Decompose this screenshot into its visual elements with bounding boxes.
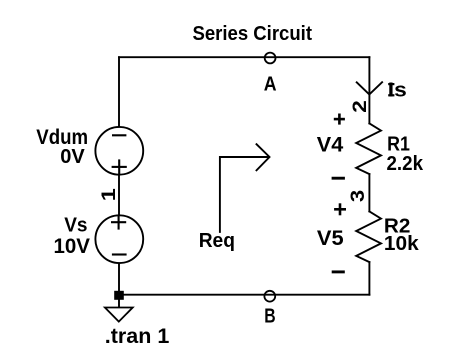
wire right lower bbox=[368, 262, 370, 295]
V5 polarity plus mark bbox=[334, 203, 346, 215]
svg-text:A: A bbox=[264, 72, 277, 95]
current arrow Is head bbox=[357, 82, 382, 94]
wire left lower bbox=[118, 263, 120, 295]
V4 polarity minus mark bbox=[332, 177, 345, 180]
wire right upper (node 2) bbox=[368, 57, 370, 123]
svg-text:1: 1 bbox=[98, 188, 120, 201]
svg-text:2: 2 bbox=[349, 100, 371, 113]
Vdum minus mark bbox=[112, 134, 126, 136]
voltage source Vdum circle bbox=[95, 127, 143, 175]
resistor R2 zigzag bbox=[356, 211, 381, 262]
Req arrow head bbox=[257, 144, 270, 170]
Vdum plus mark bbox=[112, 166, 127, 168]
Vs minus mark bbox=[112, 253, 127, 255]
wire top bbox=[119, 56, 369, 58]
svg-text:Series Circuit: Series Circuit bbox=[193, 23, 313, 45]
ground triangle bbox=[105, 308, 133, 322]
svg-text:B: B bbox=[264, 304, 275, 327]
Req arrow line bbox=[220, 157, 268, 232]
svg-text:.tran 1: .tran 1 bbox=[105, 324, 170, 348]
svg-text:Vs: Vs bbox=[64, 214, 87, 237]
wire left middle (node 1) bbox=[118, 175, 120, 215]
node A circle bbox=[265, 53, 276, 64]
ground junction square bbox=[114, 291, 124, 300]
voltage source Vs circle bbox=[95, 215, 143, 263]
svg-text:Is: Is bbox=[388, 80, 407, 102]
Vs plus mark bbox=[111, 221, 126, 223]
svg-text:2.2k: 2.2k bbox=[387, 152, 424, 175]
svg-text:3: 3 bbox=[348, 190, 369, 202]
ground stub wire bbox=[118, 295, 120, 308]
svg-text:V4: V4 bbox=[317, 134, 344, 157]
svg-text:0V: 0V bbox=[60, 145, 85, 168]
wire bottom bbox=[119, 294, 369, 296]
current label Is serif bars bbox=[388, 83, 394, 85]
wire left upper bbox=[118, 57, 120, 126]
node B circle bbox=[264, 291, 275, 302]
svg-text:10k: 10k bbox=[384, 232, 419, 255]
V4 polarity plus mark bbox=[334, 114, 345, 125]
svg-text:V5: V5 bbox=[317, 227, 344, 250]
V5 polarity minus mark bbox=[332, 270, 345, 273]
svg-text:Req: Req bbox=[199, 229, 235, 252]
wire right middle (node 3) bbox=[368, 174, 370, 211]
svg-text:10V: 10V bbox=[54, 235, 91, 258]
resistor R1 zigzag bbox=[356, 123, 381, 174]
